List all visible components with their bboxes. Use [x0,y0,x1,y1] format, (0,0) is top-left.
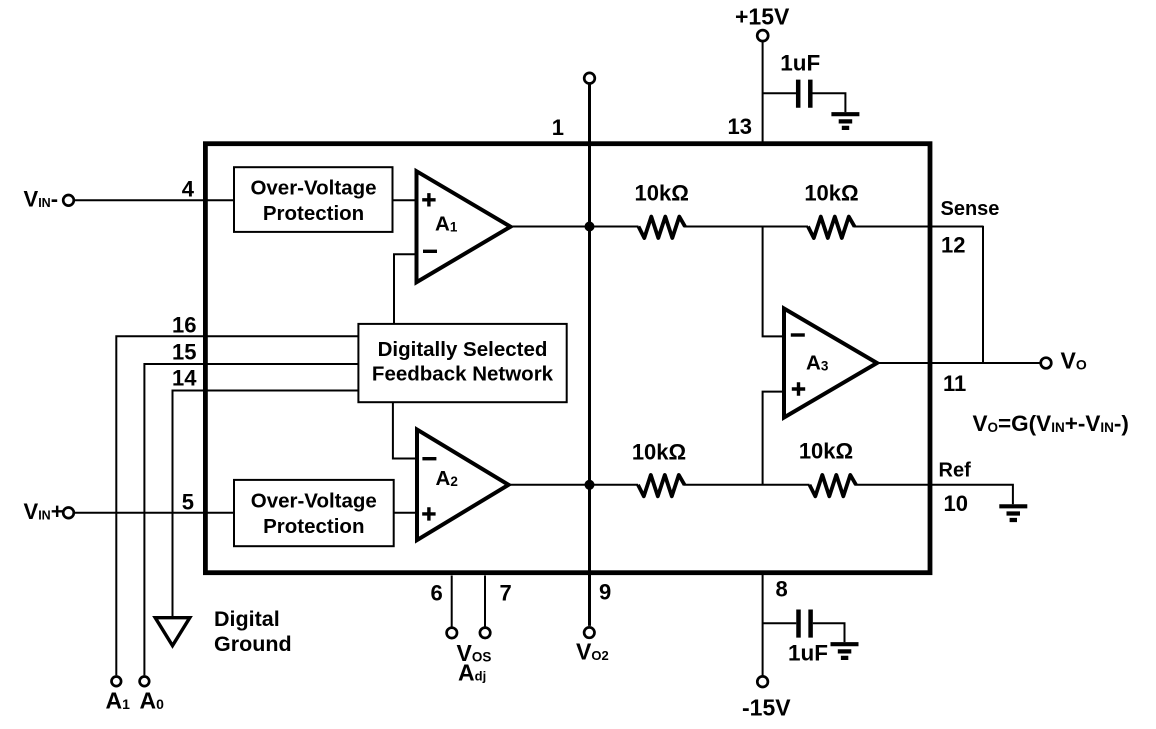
resistor R2 10k top-right [808,217,855,238]
digital ground symbol [155,618,190,646]
svg-text:Digitally Selected: Digitally Selected [378,338,548,361]
svg-text:1uF: 1uF [788,641,828,666]
svg-text:16: 16 [172,313,196,338]
resistor R1 10k top-left [639,217,686,238]
pin 1 to pin 9 line [588,84,591,626]
svg-text:10kΩ: 10kΩ [635,180,689,205]
wire pin 14 to digital ground [173,391,359,618]
svg-text:1: 1 [552,115,564,140]
terminal VO2 [584,627,594,637]
pin 1 terminal [584,73,595,84]
svg-text:A1: A1 [106,688,131,714]
svg-text:8: 8 [776,577,788,602]
svg-text:Ref: Ref [939,460,972,482]
over-voltage protection box 2 [234,480,394,546]
svg-text:5: 5 [182,490,194,515]
svg-text:14: 14 [172,366,197,391]
wire between R3 and R4 [684,484,810,486]
terminal pin 7 [480,628,490,638]
svg-text:4: 4 [182,177,195,202]
terminal VIN+ [63,508,74,519]
svg-text:VIN+: VIN+ [24,499,64,524]
ground symbol top [831,114,859,128]
svg-text:Over-Voltage: Over-Voltage [251,490,377,513]
wire A3 output to Vo [877,362,1041,364]
wire pin 15 to A0 terminal [144,364,358,675]
wire pin 8 to -15V [762,573,764,676]
capacitor C1 1uF [798,80,810,108]
svg-text:VO: VO [1061,348,1087,374]
op-amp A3 [784,309,877,418]
svg-text:15: 15 [172,340,196,365]
label Digital Ground [214,607,292,656]
wire A3 plus to bottom node [763,392,785,485]
svg-text:9: 9 [599,580,611,605]
wire OVP2 to A2 plus [394,512,418,514]
ground symbol ref [999,506,1027,520]
svg-text:-15V: -15V [742,694,791,720]
svg-text:10kΩ: 10kΩ [804,180,858,205]
wire top node to A3 minus [763,227,785,337]
terminal A0 [140,677,150,687]
svg-text:Over-Voltage: Over-Voltage [250,176,376,199]
terminal Vo [1041,358,1052,369]
wire C1 to ground [813,93,846,112]
svg-text:A0: A0 [140,688,165,714]
svg-text:10kΩ: 10kΩ [799,439,853,464]
sense feedback wire [982,226,984,363]
svg-text:11: 11 [943,371,966,396]
wire pin 7 [484,576,486,627]
junction node at pin9 line bottom wire [585,480,595,490]
svg-text:Protection: Protection [263,515,364,538]
svg-text:VIN-: VIN- [24,186,59,211]
svg-text:13: 13 [728,114,752,139]
wire OVP1 to A1 plus [393,199,419,201]
svg-text:VO2: VO2 [576,638,609,664]
svg-text:Sense: Sense [941,198,1000,220]
wire to capacitor C1 [763,92,796,94]
op-amp A1 [417,171,511,282]
terminal A1 [112,677,122,687]
svg-text:+15V: +15V [735,4,790,30]
wire R4 to ref ground [855,485,1013,504]
svg-text:1uF: 1uF [780,50,820,75]
wire pin 16 to A1 terminal [116,336,358,675]
svg-text:Protection: Protection [263,202,364,225]
ground symbol bottom [831,644,859,658]
svg-text:Ground: Ground [214,632,292,656]
svg-text:10kΩ: 10kΩ [632,440,686,465]
junction node at pin1 line top wire [585,222,595,232]
IC boundary box [205,144,930,573]
wire R2 to sense corner [854,226,984,228]
svg-text:VO=G(VIN+-VIN-): VO=G(VIN+-VIN-) [973,411,1129,436]
terminal -15V [757,676,768,687]
terminal VIN- [63,195,74,206]
svg-text:6: 6 [431,581,443,606]
svg-text:12: 12 [941,233,965,258]
wire A1 minus input [394,254,418,324]
terminal +15V [757,30,768,41]
wire A2 output to ref line [509,484,639,486]
op-amp A2 [417,430,509,541]
svg-text:Digital: Digital [214,607,280,631]
wire +15V to pin 13 [762,41,764,143]
digitally selected feedback network box [358,324,566,402]
wire to capacitor C2 [763,622,797,624]
wire pin 6 [451,576,453,627]
wire VIN- to OVP1 [75,199,235,201]
over-voltage protection box 1 [234,167,393,232]
svg-text:7: 7 [500,581,512,606]
svg-text:10: 10 [944,491,968,516]
terminal pin 6 [447,628,457,638]
wire between R1 and R2 [684,226,808,228]
wire C2 to ground [813,623,845,642]
svg-text:Feedback Network: Feedback Network [372,362,554,385]
resistor R4 10k bottom-right [810,475,857,496]
wire VIN+ to OVP2 [75,512,235,514]
wire feedback box to A2 minus [393,402,418,458]
capacitor C2 1uF [799,610,811,638]
resistor R3 10k bottom-left [638,475,685,496]
wire A1 output to sense line [511,226,639,228]
